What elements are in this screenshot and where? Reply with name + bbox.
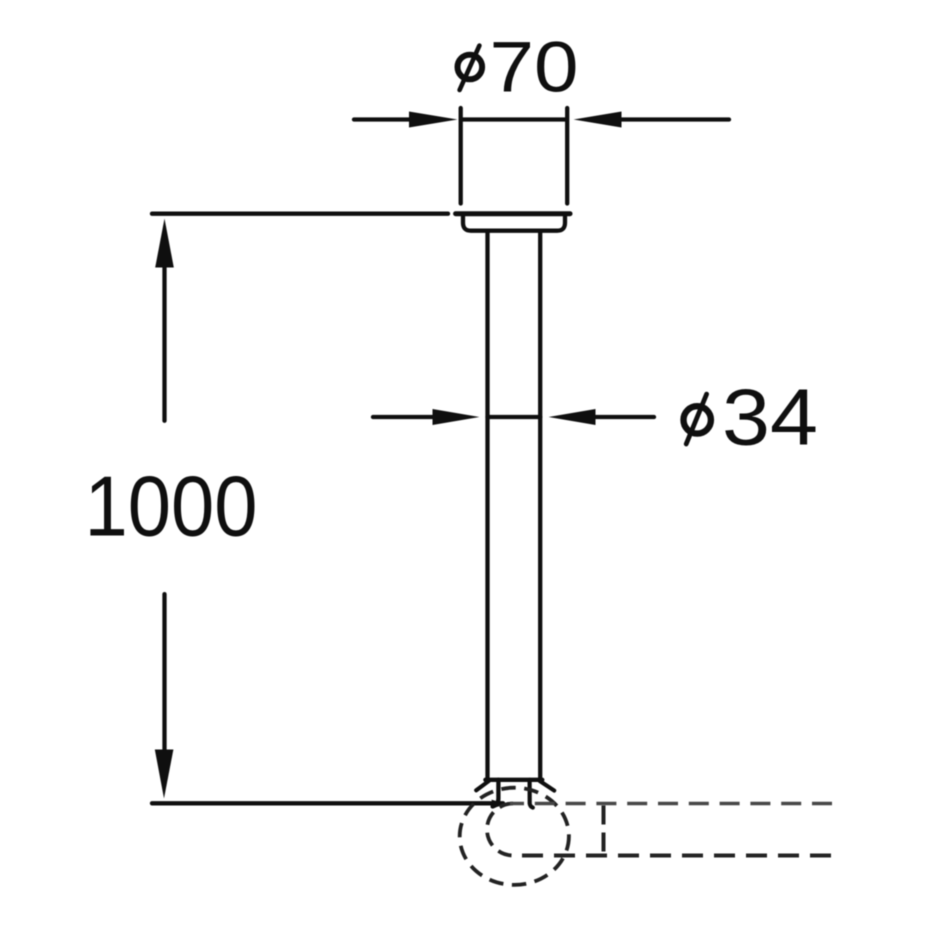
diameter symbol of ø70: [458, 46, 483, 90]
chamfer line bottom left: [476, 781, 489, 790]
extension line ø70 left tick: [459, 108, 463, 204]
chamfer line bottom right: [540, 781, 554, 791]
dimension line ø34 left segment: [373, 415, 435, 419]
tube bottom shoulder line: [485, 778, 542, 782]
tube left wall: [485, 231, 489, 780]
extension line ø70 right tick: [565, 108, 569, 204]
hidden ball joint dashed circle: [460, 788, 569, 885]
arrowhead ø34 pointing right: [433, 409, 480, 425]
dimension line ø70 right segment: [620, 117, 729, 121]
hidden holder bar left cap dashed arc: [487, 804, 513, 856]
dimension line ø34 right segment: [594, 415, 654, 419]
flange top line: [456, 211, 570, 216]
dimension line ø70 middle segment: [461, 117, 566, 121]
dimension line ø34 middle segment: [488, 415, 541, 419]
svg-text:34: 34: [722, 373, 818, 462]
arrowhead 1000 pointing up: [155, 219, 174, 268]
diameter symbol of ø34: [684, 394, 711, 444]
tube right wall: [538, 231, 542, 780]
dimension line 1000 upper segment: [162, 264, 166, 421]
svg-text:70: 70: [490, 29, 579, 108]
arrowhead ø34 pointing left: [549, 409, 596, 425]
extension line 1000 bottom: [152, 801, 503, 805]
dimension line ø70 left segment: [354, 117, 413, 121]
arrowhead ø70 pointing left: [574, 112, 622, 128]
dimension line 1000 lower segment: [162, 594, 166, 750]
neck right wall with hook: [530, 780, 533, 808]
arrowhead ø70 pointing right: [409, 112, 458, 128]
arrowhead 1000 pointing down: [155, 750, 174, 799]
extension line 1000 bottom end blob: [492, 800, 507, 809]
hidden holder bar top dashed line: [510, 802, 832, 806]
svg-text:1000: 1000: [85, 460, 258, 555]
extension line 1000 top: [152, 212, 448, 216]
hidden holder bar bottom dashed line: [513, 854, 831, 858]
neck left wall with hook: [493, 780, 499, 807]
hidden holder joint vertical dashed line: [602, 806, 606, 852]
flange body outline: [463, 215, 565, 231]
